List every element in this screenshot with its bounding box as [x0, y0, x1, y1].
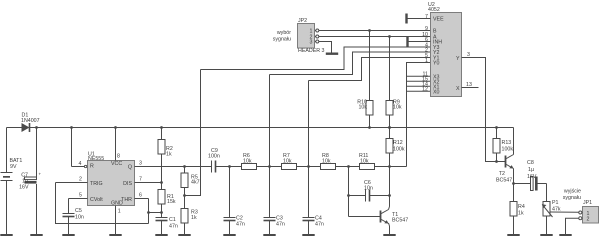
svg-text:10k: 10k: [243, 159, 252, 165]
svg-text:100k: 100k: [393, 147, 405, 153]
svg-text:5: 5: [79, 193, 82, 199]
svg-text:P1: P1: [552, 200, 559, 206]
svg-text:100k: 100k: [502, 147, 514, 153]
svg-text:47n: 47n: [276, 222, 285, 228]
svg-text:C3: C3: [276, 216, 283, 222]
svg-text:X0: X0: [433, 89, 440, 95]
svg-text:2: 2: [587, 216, 590, 222]
svg-text:CVolt: CVolt: [90, 197, 103, 203]
svg-text:16V: 16V: [19, 185, 29, 191]
svg-text:16V: 16V: [527, 174, 537, 180]
svg-text:BC547: BC547: [496, 178, 512, 184]
svg-text:1k: 1k: [191, 215, 197, 221]
svg-text:C2: C2: [236, 216, 243, 222]
svg-text:1: 1: [118, 208, 121, 214]
svg-text:1k: 1k: [518, 211, 524, 217]
svg-text:15k: 15k: [167, 199, 176, 205]
svg-text:wybór: wybór: [277, 30, 291, 36]
svg-text:6: 6: [139, 193, 142, 199]
svg-text:100n: 100n: [208, 153, 220, 159]
svg-text:1N4007: 1N4007: [21, 118, 40, 124]
svg-text:Y0: Y0: [433, 61, 440, 67]
svg-text:R: R: [90, 164, 94, 170]
svg-text:10k: 10k: [283, 159, 292, 165]
svg-text:7: 7: [139, 177, 142, 183]
svg-text:C4: C4: [315, 216, 322, 222]
svg-text:1µ: 1µ: [528, 167, 534, 173]
svg-text:C1: C1: [169, 217, 176, 223]
svg-text:12: 12: [422, 87, 428, 93]
svg-text:47n: 47n: [315, 222, 324, 228]
svg-text:1: 1: [425, 58, 428, 64]
svg-text:4: 4: [79, 161, 82, 167]
svg-text:VCC: VCC: [111, 161, 122, 167]
svg-text:9V: 9V: [10, 164, 17, 170]
svg-text:8: 8: [117, 153, 120, 159]
svg-text:X: X: [456, 86, 460, 92]
svg-text:sygnału: sygnału: [563, 195, 581, 201]
svg-text:4k7: 4k7: [191, 179, 200, 185]
svg-text:BC547: BC547: [392, 218, 408, 224]
svg-text:10k: 10k: [360, 159, 369, 165]
svg-text:NE555: NE555: [88, 156, 104, 162]
svg-text:3: 3: [310, 40, 313, 46]
svg-text:JP2: JP2: [298, 18, 307, 24]
svg-text:+: +: [39, 172, 42, 177]
svg-text:HEADER 3: HEADER 3: [298, 48, 325, 54]
svg-text:Q: Q: [128, 165, 132, 171]
svg-text:2: 2: [79, 177, 82, 183]
svg-text:13: 13: [466, 82, 472, 88]
svg-text:47n: 47n: [236, 222, 245, 228]
svg-text:4052: 4052: [428, 7, 440, 13]
svg-text:10k: 10k: [358, 104, 367, 110]
svg-text:sygnału: sygnału: [273, 37, 291, 43]
svg-text:10k: 10k: [393, 104, 402, 110]
svg-text:3: 3: [139, 161, 142, 167]
svg-text:T2: T2: [499, 171, 505, 177]
svg-text:TRIG: TRIG: [90, 181, 103, 187]
svg-text:1k: 1k: [166, 152, 172, 158]
svg-text:GND: GND: [111, 200, 123, 206]
svg-text:47n: 47n: [169, 224, 178, 230]
svg-text:DIS: DIS: [123, 181, 132, 187]
svg-text:C8: C8: [527, 160, 534, 166]
svg-text:10n: 10n: [75, 215, 84, 221]
svg-text:R12: R12: [393, 140, 403, 146]
svg-text:47k: 47k: [552, 207, 561, 213]
svg-text:Y: Y: [456, 56, 460, 62]
svg-text:wyjście: wyjście: [564, 189, 581, 195]
svg-text:C5: C5: [75, 208, 82, 214]
svg-text:R4: R4: [518, 204, 525, 210]
svg-text:10k: 10k: [322, 159, 331, 165]
svg-text:R13: R13: [502, 140, 512, 146]
svg-text:VEE: VEE: [433, 17, 444, 23]
svg-text:JP1: JP1: [583, 200, 592, 206]
svg-text:10n: 10n: [364, 185, 373, 191]
